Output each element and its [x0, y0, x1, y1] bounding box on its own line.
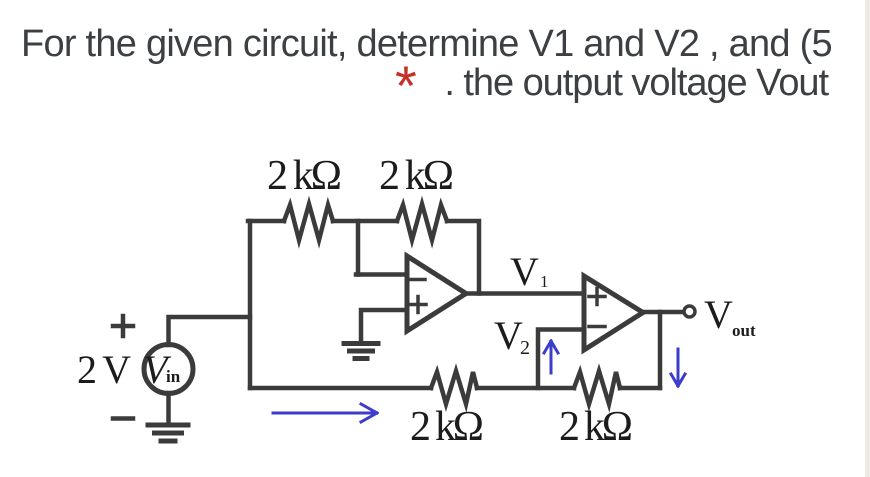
wire: bottom rail middle segment with V2 junction [477, 386, 574, 391]
wire: output of U2 to terminal [643, 310, 683, 315]
voltage source Vin circle [144, 345, 193, 394]
wire: top rail left segment into R1 [248, 219, 284, 224]
wire: top rail segment between R1 and R2 through node [333, 219, 397, 224]
wire: V2 node riser to inverting input of U2 [538, 330, 584, 389]
svg-text:V: V [510, 249, 539, 294]
required asterisk [395, 58, 417, 114]
wire: bottom rail left segment into R3 [250, 386, 431, 391]
resistor 2 kOhm top-left [284, 204, 333, 240]
svg-text:2: 2 [520, 337, 530, 359]
question title line 2 [444, 64, 828, 102]
svg-text:out: out [732, 321, 756, 340]
ground below source [148, 425, 188, 441]
op-amp U2 (second) [584, 276, 643, 350]
svg-text:2 kΩ: 2 kΩ [267, 153, 342, 199]
op-amp U2 plus sign [589, 289, 605, 305]
terminal Vout (open circle) [684, 306, 695, 317]
right edge strip [865, 0, 870, 477]
svg-text:V: V [704, 292, 733, 337]
question title line 1 [21, 25, 832, 63]
wire: V1 node, output of U1 to + input of U2 [466, 291, 584, 296]
svg-text:1: 1 [540, 272, 549, 291]
annotation: blue arrow up (V2) [544, 341, 558, 373]
svg-text:in: in [166, 367, 181, 386]
op-amp U1 (first) [407, 256, 466, 331]
wire: source top to left bus [169, 317, 251, 345]
op-amp U2 minus sign [589, 325, 605, 329]
wire: feedback drop from top rail to op-amp output [447, 221, 479, 294]
annotation: blue arrow down (Vout) [671, 349, 685, 386]
resistor 2 kOhm top-right (feedback) [397, 204, 447, 240]
wire: left vertical bus from top rail to bottom rail [248, 221, 253, 388]
op-amp U1 plus sign [410, 297, 426, 313]
wire: inverting input of first op-amp [356, 272, 407, 277]
resistor 2 kOhm bottom-left [431, 371, 477, 404]
node: junction between R1 and R2 feeding inverting input [356, 221, 361, 275]
wire: source bottom to ground [166, 393, 171, 424]
svg-text:2 kΩ: 2 kΩ [379, 153, 454, 199]
op-amp U1 minus sign [410, 278, 425, 282]
ground below first op-amp [344, 344, 378, 359]
wire: bottom rail right segment to feedback drop [620, 386, 660, 391]
plus polarity mark [113, 316, 133, 336]
wire: non-inverting input of first op-amp [361, 310, 407, 341]
annotation: blue current arrow right (bottom-left) [273, 404, 377, 422]
svg-text:2 kΩ: 2 kΩ [410, 404, 484, 450]
wire: feedback drop from output to bottom rail [658, 312, 663, 388]
minus polarity mark [113, 416, 133, 421]
svg-text:2 V: 2 V [77, 347, 131, 392]
resistor 2 kOhm bottom-right [574, 371, 620, 404]
svg-text:2 kΩ: 2 kΩ [559, 404, 633, 450]
svg-text:V: V [494, 313, 523, 358]
